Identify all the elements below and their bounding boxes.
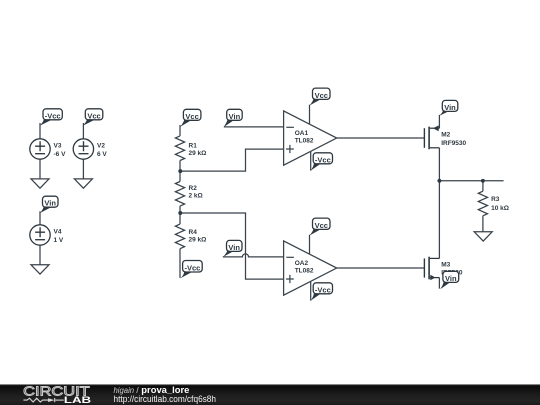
svg-text:-Vcc: -Vcc bbox=[315, 155, 331, 164]
svg-text:1 V: 1 V bbox=[54, 237, 64, 244]
svg-text:Vin: Vin bbox=[228, 243, 240, 252]
svg-text:LAB: LAB bbox=[64, 395, 92, 405]
svg-text:Vcc: Vcc bbox=[315, 91, 328, 100]
svg-text:-6 V: -6 V bbox=[54, 151, 67, 158]
svg-text:V3: V3 bbox=[54, 143, 62, 150]
svg-text:IRF9530: IRF9530 bbox=[441, 140, 466, 147]
svg-text:http://circuitlab.com/cfq6s8h: http://circuitlab.com/cfq6s8h bbox=[114, 394, 217, 404]
svg-text:Vcc: Vcc bbox=[315, 221, 328, 230]
svg-text:R2: R2 bbox=[189, 185, 198, 192]
svg-text:2 kΩ: 2 kΩ bbox=[189, 192, 203, 199]
svg-text:Vcc: Vcc bbox=[87, 111, 100, 120]
svg-text:-Vcc: -Vcc bbox=[45, 111, 61, 120]
svg-text:10 kΩ: 10 kΩ bbox=[491, 205, 509, 212]
svg-text:-Vcc: -Vcc bbox=[184, 263, 200, 272]
svg-text:TL082: TL082 bbox=[295, 268, 314, 275]
svg-text:Vcc: Vcc bbox=[185, 112, 198, 121]
svg-text:OA1: OA1 bbox=[295, 130, 309, 137]
svg-text:M3: M3 bbox=[441, 262, 450, 269]
svg-text:R1: R1 bbox=[189, 142, 198, 149]
svg-text:-Vcc: -Vcc bbox=[315, 285, 331, 294]
svg-text:Vin: Vin bbox=[44, 199, 56, 208]
svg-text:Vin: Vin bbox=[445, 274, 457, 283]
svg-text:29 kΩ: 29 kΩ bbox=[189, 237, 207, 244]
svg-text:6 V: 6 V bbox=[97, 151, 107, 158]
svg-text:Vin: Vin bbox=[229, 112, 241, 121]
svg-text:V2: V2 bbox=[97, 143, 105, 150]
svg-text:OA2: OA2 bbox=[295, 260, 309, 267]
svg-text:M2: M2 bbox=[441, 132, 450, 139]
svg-text:V4: V4 bbox=[54, 229, 62, 236]
svg-text:29 kΩ: 29 kΩ bbox=[189, 150, 207, 157]
svg-text:TL082: TL082 bbox=[295, 138, 314, 145]
svg-text:R3: R3 bbox=[491, 196, 500, 203]
svg-text:Vin: Vin bbox=[444, 103, 456, 112]
svg-text:R4: R4 bbox=[189, 229, 198, 236]
